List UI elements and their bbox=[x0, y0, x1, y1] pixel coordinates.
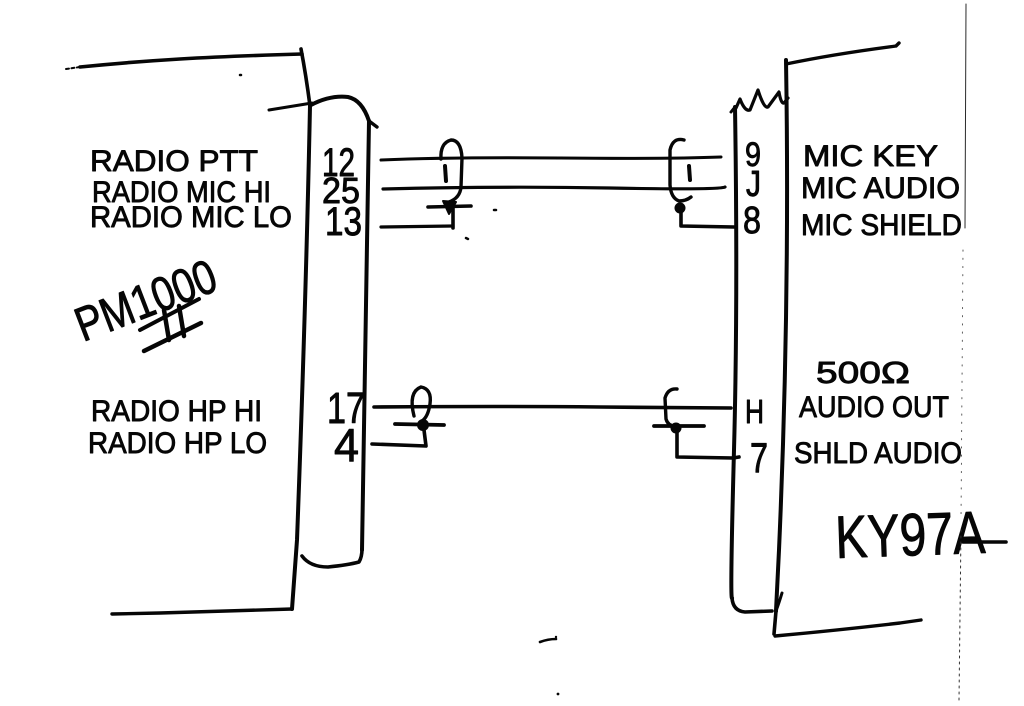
shield bar right (hp) bbox=[654, 424, 704, 428]
wire shield dot to pin8 bbox=[681, 213, 734, 227]
right device bottom edge bbox=[775, 620, 921, 636]
svg-text:J: J bbox=[746, 163, 761, 204]
right device top edge bbox=[786, 43, 899, 64]
shield junction blob right (hp) bbox=[671, 423, 682, 434]
shield loop right inner dash bbox=[689, 166, 690, 180]
scan artifact vertical line bottom (dotted) bbox=[961, 250, 963, 520]
shield bar left (hp) bbox=[395, 424, 444, 425]
svg-text:SHLD AUDIO: SHLD AUDIO bbox=[794, 437, 962, 470]
scan artifact vertical line top bbox=[965, 4, 966, 228]
KY97A trailing stroke bbox=[963, 540, 1006, 544]
right strip bottom curve bbox=[732, 598, 772, 612]
svg-text:RADIO HP HI: RADIO HP HI bbox=[91, 395, 262, 428]
shield loop left (hp pair) bbox=[412, 387, 430, 421]
right strip bottom hook bbox=[776, 593, 782, 611]
shield loop left (mic pair) bbox=[441, 140, 462, 202]
left device PM1000 box top edge bbox=[80, 54, 302, 67]
stray dash mark bottom middle bbox=[540, 639, 556, 642]
speck dot right of dash bbox=[555, 636, 557, 638]
svg-text:MIC KEY: MIC KEY bbox=[803, 140, 938, 173]
left connector strip bottom curve bbox=[302, 549, 362, 567]
shield loop left inner dash bbox=[445, 166, 446, 181]
svg-text:KY97A: KY97A bbox=[834, 499, 986, 571]
shield loop right (mic pair) bbox=[670, 139, 691, 201]
right device strip right line bbox=[776, 60, 787, 611]
wire shield to pin7 bbox=[677, 433, 739, 458]
svg-text:8: 8 bbox=[743, 200, 761, 242]
wire pin25 to pinJ bbox=[383, 187, 725, 189]
left device box bottom edge bbox=[112, 609, 292, 614]
left connector strip right line bbox=[362, 121, 369, 550]
left device box corner drop bbox=[301, 49, 310, 106]
shield drain stem left bbox=[451, 208, 455, 228]
svg-text:500Ω: 500Ω bbox=[816, 355, 910, 390]
left connector strip left line bbox=[292, 106, 310, 609]
shield drain arrowhead left bbox=[443, 201, 456, 214]
numeral II underline bbox=[144, 323, 201, 351]
right strip left line top tail bbox=[731, 107, 735, 112]
wire pin17 to pinH bbox=[374, 407, 731, 409]
left connector strip top tick bbox=[269, 103, 312, 110]
svg-text:7: 7 bbox=[750, 434, 768, 481]
right device bottom left edge bbox=[774, 611, 776, 634]
wire pin4 to shield (hp) bbox=[372, 430, 426, 446]
device label PM1000 bbox=[68, 250, 224, 352]
shield drain bar left bbox=[428, 206, 471, 207]
svg-text:RADIO MIC LO: RADIO MIC LO bbox=[90, 201, 292, 234]
wire pin12 to pin9 bbox=[381, 157, 721, 160]
shield junction blob left (hp) bbox=[417, 419, 429, 431]
svg-text:MIC SHIELD: MIC SHIELD bbox=[801, 209, 962, 242]
svg-text:4: 4 bbox=[334, 419, 359, 471]
speck dot bottom middle bbox=[557, 693, 560, 696]
right device KY97A strip left line bbox=[731, 107, 736, 598]
scan artifact vertical line lower (denser dots) bbox=[959, 530, 961, 700]
svg-text:13: 13 bbox=[325, 200, 362, 244]
svg-text:RADIO PTT: RADIO PTT bbox=[90, 145, 258, 178]
svg-text:MIC AUDIO: MIC AUDIO bbox=[801, 172, 960, 205]
speck above box bbox=[240, 74, 241, 77]
numeral II stroke 1 bbox=[164, 310, 169, 340]
svg-text:H: H bbox=[745, 393, 764, 430]
left device box top edge faint start bbox=[66, 67, 80, 69]
right strip torn-paper zigzag bbox=[736, 90, 788, 110]
PM1000 underline bbox=[140, 299, 199, 330]
svg-text:RADIO HP LO: RADIO HP LO bbox=[88, 427, 267, 460]
left connector strip top-right hook bbox=[369, 121, 377, 127]
shield loop right (hp pair) bbox=[665, 389, 677, 426]
svg-text:AUDIO OUT: AUDIO OUT bbox=[799, 391, 949, 424]
wire pin13 to left shield drain bbox=[381, 226, 453, 227]
speck near wires bbox=[494, 209, 496, 212]
numeral II stroke 2 bbox=[179, 306, 184, 336]
left connector strip top arc bbox=[311, 97, 369, 121]
svg-text:PM1000: PM1000 bbox=[68, 250, 224, 352]
shield junction dot right bbox=[675, 203, 686, 214]
speck below wire3 bbox=[466, 238, 468, 239]
